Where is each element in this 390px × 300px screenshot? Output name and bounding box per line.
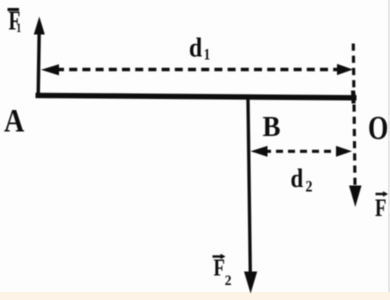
svg-text:F: F	[214, 254, 225, 281]
svg-text:B: B	[263, 111, 281, 143]
svg-text:2: 2	[306, 179, 313, 196]
label F1	[8, 7, 22, 37]
label d1	[189, 32, 210, 64]
svg-text:A: A	[4, 102, 24, 139]
dashed force F line of action through O	[349, 44, 362, 208]
label d2	[291, 165, 313, 196]
label F2	[213, 254, 232, 289]
svg-text:F: F	[375, 193, 386, 221]
lever bar AO	[36, 91, 357, 104]
svg-text:d: d	[291, 165, 304, 194]
svg-text:1: 1	[16, 22, 21, 35]
dimension arrow d2	[251, 146, 353, 157]
dimension arrow d1	[41, 64, 353, 76]
label F	[375, 191, 388, 221]
force F1 arrow	[34, 17, 45, 96]
force F2 arrow at B	[244, 99, 257, 294]
svg-text:1: 1	[204, 46, 210, 64]
svg-text:d: d	[189, 32, 202, 63]
svg-text:2: 2	[225, 272, 232, 289]
svg-text:O: O	[368, 110, 388, 147]
